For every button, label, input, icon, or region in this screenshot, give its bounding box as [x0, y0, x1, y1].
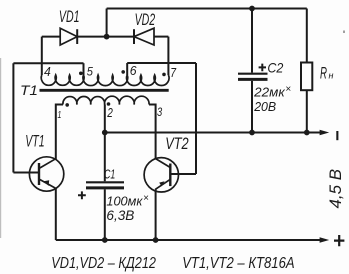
svg-text:C2: C2: [267, 60, 283, 76]
wire pin 5 to left rail: [13, 62, 83, 64]
svg-text:4,5 В: 4,5 В: [326, 169, 345, 209]
svg-text:VD2: VD2: [135, 10, 156, 29]
transformer T1 secondary winding 4-5-6-7: [41, 75, 169, 86]
label minus (rotated bar): [336, 131, 338, 140]
svg-text:6: 6: [130, 63, 138, 78]
svg-text:7: 7: [170, 66, 177, 80]
core of T1: [40, 89, 169, 92]
wire pin1 lead to VT1 collector: [56, 105, 63, 160]
node Rn bottom: [304, 130, 310, 136]
phasing dot pin1: [65, 103, 69, 107]
wire VD2 anode to pin 7: [167, 37, 169, 75]
scan edge artifact: [0, 58, 1, 238]
wire rail drop to diode junction: [106, 9, 108, 37]
svg-text:5: 5: [87, 64, 93, 78]
svg-text:100мк: 100мк: [106, 195, 143, 209]
wire VT2 base: [170, 173, 196, 175]
wire bottom plus rail: [56, 239, 320, 241]
transistor VT1: [29, 157, 63, 191]
svg-text:C1: C1: [104, 167, 115, 182]
svg-text:VD1,VD2 – КД212: VD1,VD2 – КД212: [51, 255, 156, 272]
svg-text:×: ×: [143, 193, 149, 204]
wire pin 5 stub: [83, 63, 85, 75]
svg-text:VD1: VD1: [59, 7, 80, 26]
svg-text:4: 4: [44, 64, 51, 79]
label C2 plus: [259, 64, 266, 72]
phasing dot pin6: [121, 70, 125, 74]
arrow minus output: [320, 130, 330, 135]
label plus terminal: [334, 235, 344, 246]
svg-text:VT1: VT1: [25, 132, 44, 151]
arrow plus output: [320, 237, 330, 242]
resistor Rn: [301, 63, 312, 91]
wire pin3 lead to VT2 collector: [149, 105, 156, 159]
wire pin 6 to right column: [127, 62, 196, 64]
wire VD2 anode segment: [154, 36, 168, 38]
wire right column vertical: [195, 63, 197, 174]
transistor VT2: [144, 158, 178, 192]
node VT2 emitter at bottom rail: [153, 237, 159, 243]
wire Rn to minus line: [306, 90, 308, 132]
diode VD2: [134, 28, 154, 45]
wire VT2 emitter down: [155, 189, 157, 240]
diode VD1: [60, 28, 77, 45]
svg-text:22мк: 22мк: [253, 86, 286, 100]
scan speck: [343, 31, 345, 34]
node C2 top rail: [249, 6, 255, 12]
label C1 plus: [78, 191, 86, 199]
wire left rail vertical: [12, 63, 14, 172]
capacitor C2: [238, 9, 268, 133]
node C1 top at bottom rail: [102, 237, 108, 243]
svg-text:T1: T1: [20, 82, 38, 98]
svg-text:×: ×: [285, 84, 291, 95]
wire VD1 anode to pin 4: [41, 37, 43, 75]
node center tap junction: [102, 130, 108, 136]
svg-text:2: 2: [107, 105, 114, 120]
node C2 bottom: [249, 130, 255, 136]
svg-text:VT1,VT2 – КТ816А: VT1,VT2 – КТ816А: [182, 255, 294, 272]
transformer T1 primary winding 1-2-3: [63, 96, 149, 104]
phasing dot pin7: [162, 73, 166, 77]
wire VT1 base: [13, 172, 39, 174]
wire VD1 anode segment: [42, 36, 60, 38]
svg-text:VT2: VT2: [165, 134, 189, 153]
wire top rail to Rn: [306, 9, 308, 63]
wire top output rail: [107, 8, 307, 10]
svg-text:1: 1: [58, 109, 62, 121]
wire minus output line: [105, 132, 320, 134]
wire pin 6 stub: [126, 63, 128, 75]
svg-text:20В: 20В: [253, 99, 276, 114]
wire VT1 emitter down: [55, 188, 57, 240]
wire VD1 cathode to VD2 cathode: [77, 36, 134, 38]
svg-text:6,3В: 6,3В: [106, 208, 134, 223]
node diode cathodes junction: [104, 34, 110, 40]
phasing dot pin2: [107, 102, 111, 106]
svg-text:3: 3: [157, 105, 162, 119]
phasing dot pin5: [79, 72, 83, 76]
capacitor C1: [86, 133, 124, 241]
wire pin2 center tap drop: [104, 105, 106, 133]
